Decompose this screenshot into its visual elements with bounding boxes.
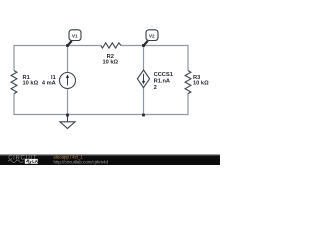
svg-text:10 kΩ: 10 kΩ — [193, 81, 209, 87]
wire top-right segment — [121, 45, 188, 47]
watermark bar — [0, 154, 220, 165]
svg-text:2: 2 — [154, 85, 157, 91]
junction bottom-left — [66, 114, 69, 117]
svg-text:V2: V2 — [149, 34, 155, 40]
wire I1 branch lower — [67, 88, 69, 114]
junction bottom-right — [142, 114, 145, 117]
node V2 — [144, 30, 158, 46]
current source I1 — [42, 73, 76, 89]
wire CCCS1 branch lower — [143, 88, 145, 115]
svg-text:CCCS1: CCCS1 — [154, 72, 173, 78]
wire right lower — [187, 94, 189, 116]
svg-text:10 kΩ: 10 kΩ — [23, 81, 39, 87]
svg-text:R1.nA: R1.nA — [154, 79, 170, 85]
watermark logo LAB box — [25, 159, 38, 164]
controlled source CCCS1 — [137, 70, 172, 91]
svg-text:V1: V1 — [72, 34, 78, 40]
svg-text:4 mA: 4 mA — [42, 81, 56, 87]
wire I1 branch upper — [67, 46, 69, 73]
watermark logo waveform — [8, 160, 23, 163]
svg-text:LAB: LAB — [32, 159, 41, 164]
resistor R2 — [101, 43, 121, 66]
resistor R3 — [185, 71, 209, 94]
junction V2 node — [142, 44, 145, 47]
node V1 — [68, 30, 81, 46]
svg-text:10 kΩ: 10 kΩ — [102, 60, 118, 66]
wire left upper — [13, 45, 15, 71]
wire right upper — [187, 45, 189, 71]
resistor R1 — [11, 71, 38, 94]
junction V1 node — [66, 44, 69, 47]
wire left lower — [13, 94, 15, 116]
wire bottom — [14, 114, 188, 116]
svg-text:http://circuitlab.com/cjrkm4d: http://circuitlab.com/cjrkm4d — [54, 159, 109, 164]
wire top-left segment — [14, 45, 101, 47]
wire CCCS1 branch upper — [143, 46, 145, 71]
ground — [60, 115, 75, 129]
